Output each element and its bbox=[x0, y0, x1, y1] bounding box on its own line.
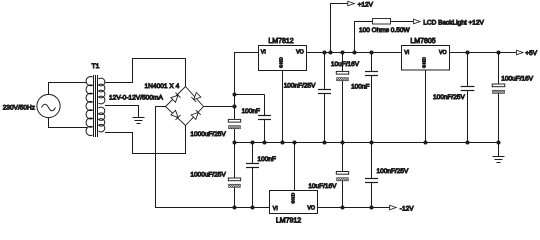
svg-text:100nF: 100nF bbox=[258, 156, 276, 163]
svg-text:LCD BackLight +12V: LCD BackLight +12V bbox=[423, 19, 484, 26]
svg-text:+5V: +5V bbox=[525, 50, 537, 57]
svg-text:10uF/16V: 10uF/16V bbox=[308, 183, 337, 190]
svg-text:GND: GND bbox=[422, 57, 427, 68]
svg-text:1000uF/25V: 1000uF/25V bbox=[190, 171, 226, 178]
svg-text:LM7805: LM7805 bbox=[410, 38, 435, 45]
svg-text:100 Ohms 0.50W: 100 Ohms 0.50W bbox=[359, 27, 410, 34]
svg-text:GND: GND bbox=[291, 192, 296, 203]
svg-text:230V/50Hz: 230V/50Hz bbox=[3, 104, 35, 111]
svg-text:100nF/25V: 100nF/25V bbox=[284, 83, 316, 90]
svg-text:12V-0-12V/500mA: 12V-0-12V/500mA bbox=[109, 94, 163, 101]
svg-text:VO: VO bbox=[307, 206, 315, 212]
svg-text:VI: VI bbox=[261, 50, 266, 56]
svg-text:100nF: 100nF bbox=[242, 108, 260, 115]
svg-text:100nF/25V: 100nF/25V bbox=[433, 94, 465, 101]
svg-text:-12V: -12V bbox=[400, 206, 414, 213]
svg-text:LM7812: LM7812 bbox=[268, 38, 293, 45]
svg-text:+12V: +12V bbox=[358, 1, 374, 8]
svg-text:VI: VI bbox=[273, 206, 278, 212]
svg-text:VI: VI bbox=[404, 50, 409, 56]
svg-text:100nF/25V: 100nF/25V bbox=[377, 168, 409, 175]
svg-text:1000uF/25V: 1000uF/25V bbox=[190, 131, 226, 138]
svg-text:LM7912: LM7912 bbox=[276, 217, 301, 224]
svg-text:VO: VO bbox=[296, 50, 304, 56]
svg-text:100nF: 100nF bbox=[351, 83, 369, 90]
svg-text:GND: GND bbox=[279, 57, 284, 68]
svg-text:T1: T1 bbox=[92, 63, 100, 70]
svg-text:1N4001 X 4: 1N4001 X 4 bbox=[145, 83, 180, 90]
svg-text:100uF/16V: 100uF/16V bbox=[501, 75, 533, 82]
svg-text:10uF/16V: 10uF/16V bbox=[331, 61, 360, 68]
svg-text:VO: VO bbox=[439, 50, 447, 56]
